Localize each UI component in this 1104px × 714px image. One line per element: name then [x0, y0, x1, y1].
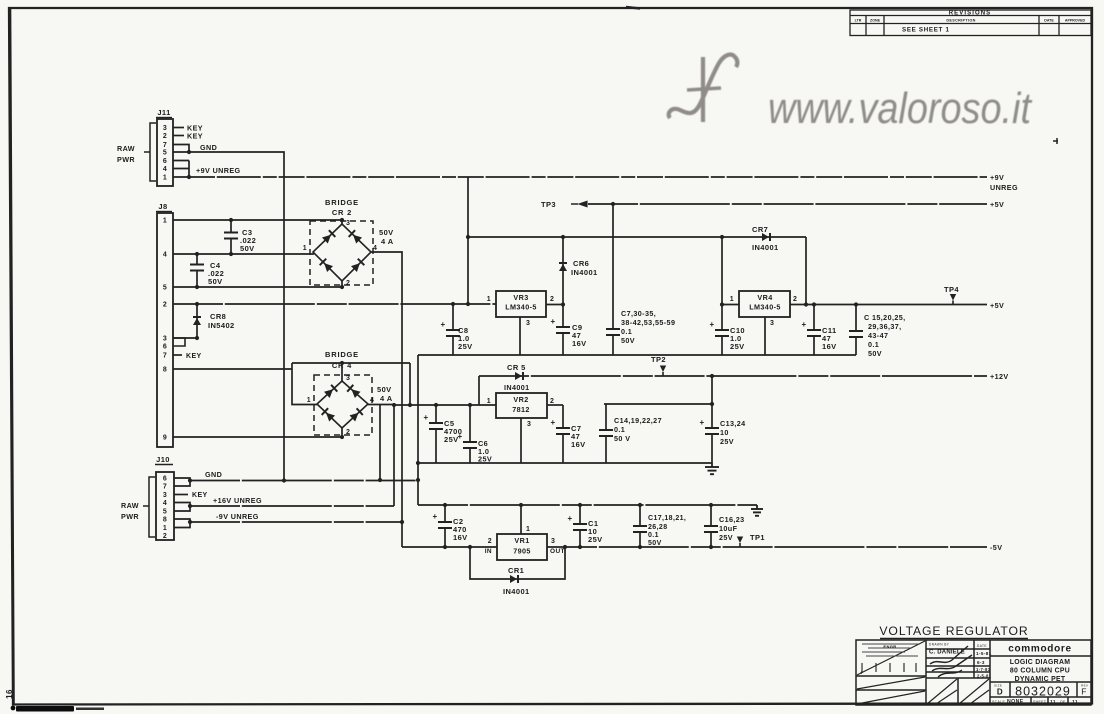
svg-text:F: F [1081, 687, 1087, 697]
svg-text:PWR: PWR [117, 155, 135, 164]
svg-text:11: 11 [1050, 699, 1056, 705]
svg-text:4: 4 [163, 252, 167, 259]
svg-text:2: 2 [346, 280, 350, 287]
wire +5V output rail [790, 304, 987, 306]
svg-text:IN4001: IN4001 [571, 268, 598, 277]
wire AC top run to CR4 [292, 362, 410, 364]
capacitor group C16,23 [710, 505, 712, 526]
bridge CR4 dashed outline [314, 375, 372, 435]
svg-text:DATE: DATE [1044, 19, 1054, 23]
bridge CR4 diamond [317, 381, 368, 428]
svg-text:GND: GND [200, 143, 217, 152]
bottom-left black mark [16, 706, 74, 712]
capacitor C5 [435, 405, 437, 423]
svg-text:5: 5 [163, 285, 167, 292]
svg-text:2: 2 [163, 133, 167, 140]
svg-text:9: 9 [163, 435, 167, 442]
capacitor C1 [579, 505, 581, 524]
svg-text:BRIDGE: BRIDGE [325, 198, 359, 207]
svg-text:6-3: 6-3 [977, 660, 985, 665]
svg-text:3: 3 [163, 336, 167, 343]
title block signature scribbles [930, 646, 972, 677]
VR2 pin 3 stub [520, 418, 522, 463]
svg-text:+: + [440, 320, 445, 329]
svg-text:4 A: 4 A [381, 237, 394, 246]
bridge CR4 node 2 stub [341, 428, 343, 437]
svg-text:8: 8 [163, 517, 167, 524]
svg-text:+: + [432, 512, 437, 521]
svg-text:2: 2 [550, 296, 554, 303]
svg-text:DRAWN BY: DRAWN BY [929, 643, 950, 647]
svg-text:TP4: TP4 [944, 285, 959, 294]
capacitor group C14,19,22,27 [605, 404, 607, 430]
svg-text:2: 2 [163, 533, 167, 540]
ground rail +12V section [418, 462, 712, 464]
bridge CR4 diode 1-3 [324, 389, 333, 398]
svg-text:VR2: VR2 [513, 395, 528, 404]
svg-text:1: 1 [303, 245, 307, 252]
svg-text:C7,30-35,: C7,30-35, [621, 309, 656, 318]
svg-text:commodore: commodore [1008, 644, 1072, 655]
diode CR1 IN4001 [470, 547, 565, 579]
J10 pin3 KEY stub [174, 494, 188, 496]
capacitor group C7,30-35,38-42,53,55-59 [612, 204, 614, 329]
svg-text:SEE SHEET 1: SEE SHEET 1 [902, 27, 950, 34]
wire J8 pin4 to bridge CR2 node 1 [173, 253, 314, 255]
svg-text:+9V: +9V [990, 173, 1004, 182]
svg-text:CR1: CR1 [508, 566, 524, 575]
svg-text:LTR: LTR [855, 19, 862, 23]
bridge CR2 diamond [313, 224, 371, 281]
bridge CR4 diode 4-3 [351, 389, 360, 398]
svg-text:4: 4 [860, 670, 863, 675]
svg-text:10: 10 [720, 428, 729, 437]
svg-text:+16V UNREG: +16V UNREG [213, 496, 262, 505]
svg-text:50V: 50V [377, 385, 392, 394]
svg-text:0.1: 0.1 [868, 340, 879, 349]
svg-text:7812: 7812 [512, 405, 530, 414]
svg-text:RAW: RAW [121, 501, 139, 510]
op-amp VR1 7905 regulator [497, 534, 547, 560]
svg-text:TP2: TP2 [651, 355, 666, 364]
svg-text:IN: IN [485, 548, 492, 555]
svg-text:8: 8 [163, 367, 167, 374]
bridge CR2 diode 2-4 [351, 263, 360, 272]
svg-text:+: + [699, 418, 704, 427]
svg-text:+9V UNREG: +9V UNREG [196, 166, 241, 175]
svg-text:16V: 16V [571, 440, 586, 449]
VR4 pin 3 stub [764, 317, 766, 355]
svg-text:2: 2 [793, 296, 797, 303]
wire CR7 to VR4 output [805, 237, 807, 305]
svg-text:25V: 25V [458, 342, 473, 351]
J10 +16V bracket pins 4,5 [174, 503, 190, 512]
svg-text:5: 5 [163, 509, 167, 516]
J10 -9V bracket pins 8,1 [174, 519, 190, 528]
svg-text:1-5-81: 1-5-81 [976, 651, 992, 656]
svg-text:7905: 7905 [513, 547, 531, 556]
svg-text:-5V: -5V [990, 543, 1002, 552]
op-amp VR2 7812 regulator [496, 393, 547, 418]
wire regulator input line [468, 236, 806, 238]
test point TP1 [739, 543, 741, 547]
J11 GND bracket pins 7,5 [173, 145, 189, 153]
wire J8 pin9 AC to bridge CR4 node 2 [173, 436, 342, 438]
svg-text:50 V: 50 V [614, 434, 630, 443]
wire +5V decoupling drop [611, 202, 615, 206]
svg-text:IN4001: IN4001 [504, 383, 530, 392]
svg-text:C14,19,22,27: C14,19,22,27 [614, 416, 662, 425]
svg-text:LM340-5: LM340-5 [749, 303, 781, 312]
svg-text:25V: 25V [730, 342, 745, 351]
svg-text:1-7-81: 1-7-81 [976, 667, 991, 672]
svg-text:+: + [550, 418, 555, 427]
svg-text:25V: 25V [588, 535, 603, 544]
wire +12V rail [479, 375, 987, 377]
wire VR2 input line [394, 404, 496, 406]
svg-text:1: 1 [730, 296, 734, 303]
svg-text:10uF: 10uF [719, 524, 738, 533]
diode CR6 IN4001 [562, 237, 564, 305]
top border tick mark [626, 7, 640, 9]
svg-text:+5V: +5V [990, 200, 1004, 209]
J8 pin7 KEY stub [173, 354, 182, 356]
svg-text:4 A: 4 A [380, 394, 393, 403]
wire -5V output rail [547, 546, 987, 548]
capacitor C2 [444, 505, 446, 522]
svg-text:16V: 16V [453, 533, 468, 542]
svg-text:3: 3 [770, 320, 774, 327]
capacitor C9 [562, 305, 564, 328]
svg-text:VR3: VR3 [513, 293, 528, 302]
svg-text:29,36,37,: 29,36,37, [868, 322, 902, 331]
svg-text:KEY: KEY [192, 492, 208, 499]
svg-text:VR4: VR4 [757, 293, 772, 302]
svg-text:1: 1 [163, 525, 167, 532]
revisions table [850, 10, 1091, 36]
svg-text:CR8: CR8 [210, 312, 226, 321]
svg-text:2-5-81: 2-5-81 [977, 674, 992, 679]
svg-text:80 COLUMN CPU: 80 COLUMN CPU [1010, 668, 1070, 675]
capacitor group C15,20,25,29,36,37,43-47 [855, 305, 857, 332]
svg-text:6: 6 [163, 476, 167, 483]
svg-text:50V: 50V [208, 277, 223, 286]
svg-text:SCALE: SCALE [992, 700, 1005, 704]
svg-text:TP3: TP3 [541, 200, 556, 209]
svg-text:50V: 50V [621, 336, 635, 345]
svg-text:4: 4 [373, 245, 377, 252]
bridge CR4 diode 2-1 [326, 413, 335, 422]
svg-text:5: 5 [163, 150, 167, 157]
svg-text:CR7: CR7 [752, 225, 768, 234]
capacitor C10 [721, 305, 723, 331]
svg-text:2: 2 [346, 429, 350, 436]
wire gnd branch vertical x380 [379, 405, 381, 480]
svg-text:0.1: 0.1 [614, 425, 625, 434]
VR1 pin 1 stub [520, 505, 522, 534]
svg-text:NONE: NONE [1007, 699, 1024, 705]
svg-text:16V: 16V [822, 342, 837, 351]
svg-text:KEY: KEY [187, 132, 203, 141]
svg-text:16: 16 [5, 689, 14, 699]
stray mark right [1053, 140, 1058, 142]
wire J8 pin1 to bridge CR2 node 3 [173, 219, 342, 221]
capacitor C3 [230, 220, 232, 233]
wire J8 pin5 to bridge CR2 node 2 [173, 286, 342, 288]
svg-text:www.valoroso.it: www.valoroso.it [768, 84, 1033, 133]
svg-text:UNREG: UNREG [990, 183, 1018, 192]
svg-text:C17,18,21,: C17,18,21, [648, 515, 686, 522]
op-amp VR3 LM340-5 regulator [496, 291, 546, 317]
test point TP2 [662, 372, 664, 376]
svg-text:APPROVED: APPROVED [1065, 19, 1086, 23]
svg-text:+: + [550, 317, 555, 326]
svg-text:LOGIC DIAGRAM: LOGIC DIAGRAM [1010, 659, 1071, 666]
capacitor C7 [562, 405, 564, 428]
ground symbol +12V section [711, 463, 713, 467]
wire jog x410 [409, 363, 411, 405]
wire +9V unreg drop to VR3 input [467, 177, 469, 304]
svg-text:-9V UNREG: -9V UNREG [216, 512, 259, 521]
svg-text:TP1: TP1 [750, 533, 765, 542]
svg-text:+: + [801, 320, 806, 329]
svg-text:+12V: +12V [990, 372, 1009, 381]
svg-text:3: 3 [526, 320, 530, 327]
svg-text:DESCRIPTION: DESCRIPTION [946, 19, 975, 23]
svg-text:IN4001: IN4001 [752, 243, 779, 252]
wire J8 pin3 [173, 337, 197, 339]
bridge CR2 node 3 stub [341, 220, 343, 224]
svg-text:GND: GND [205, 470, 222, 479]
op-amp VR4 LM340-5 regulator [739, 291, 790, 317]
bridge CR4 diode 2-4 [350, 413, 359, 422]
wire VR2 output [547, 404, 563, 406]
svg-text:PWR: PWR [121, 512, 139, 521]
svg-text:1: 1 [163, 175, 167, 182]
svg-text:2: 2 [163, 302, 167, 309]
svg-text:ENGR: ENGR [883, 644, 896, 649]
node gnd rail B left end [416, 461, 420, 465]
wire VR4 input drop [721, 237, 723, 305]
title block table [856, 640, 1091, 705]
capacitor group C13,24 [711, 376, 713, 404]
svg-text:1: 1 [487, 398, 491, 405]
svg-text:IN4001: IN4001 [503, 587, 530, 596]
svg-text:8032029: 8032029 [1015, 685, 1071, 699]
svg-text:1: 1 [487, 296, 491, 303]
svg-text:1: 1 [307, 397, 311, 404]
svg-text:OF: OF [1060, 700, 1066, 704]
svg-text:J10: J10 [156, 455, 170, 464]
svg-text:1: 1 [526, 526, 530, 533]
svg-text:3: 3 [163, 492, 167, 499]
wire +16V unreg vertical [393, 405, 395, 506]
test point TP4 [952, 301, 954, 305]
capacitor group C17,18,21,26,28 [639, 505, 641, 526]
svg-text:VR1: VR1 [514, 536, 529, 545]
wire bridge CR2 node4 to -9V unreg vertical [371, 252, 402, 547]
bridge CR2 diode 4-3 [353, 235, 362, 244]
svg-text:BRIDGE: BRIDGE [325, 350, 359, 359]
wire J8 pin8 AC [173, 368, 292, 370]
svg-text:7: 7 [163, 484, 167, 491]
svg-text:43-47: 43-47 [868, 331, 888, 340]
wire J8 pin2 +9V unreg to VR3 input [173, 303, 496, 305]
svg-text:KEY: KEY [186, 353, 202, 360]
svg-text:25V: 25V [444, 435, 459, 444]
svg-text:4: 4 [163, 500, 167, 507]
svg-text:7: 7 [163, 142, 167, 149]
svg-text:D: D [997, 688, 1003, 697]
svg-text:C13,24: C13,24 [720, 419, 746, 428]
svg-text:C16,23: C16,23 [719, 515, 745, 524]
svg-text:J8: J8 [158, 202, 167, 211]
svg-text:3: 3 [527, 421, 531, 428]
svg-text:6: 6 [163, 344, 167, 351]
svg-text:LM340-5: LM340-5 [505, 303, 537, 312]
J11 pin 2 KEY stub [173, 135, 184, 137]
svg-text:16V: 16V [572, 339, 587, 348]
J11 pin 3 KEY stub [173, 127, 184, 129]
ground rail -5V section [418, 504, 757, 506]
title block small print left cell [862, 644, 920, 656]
svg-text:50V: 50V [379, 228, 394, 237]
svg-text:3: 3 [346, 375, 350, 382]
svg-text:VOLTAGE REGULATOR: VOLTAGE REGULATOR [879, 624, 1028, 638]
svg-text:DYNAMIC PET: DYNAMIC PET [1015, 676, 1066, 683]
svg-text:0.1: 0.1 [648, 532, 659, 539]
svg-text:3: 3 [163, 125, 167, 132]
title block diagonal strike-outs [857, 641, 989, 704]
wire AC drop to CR4 node1 [292, 363, 317, 405]
bridge CR2 dashed outline [310, 221, 373, 285]
VR3 pin 3 stub [519, 317, 521, 355]
ground rail upper [418, 354, 856, 356]
svg-text:7: 7 [163, 353, 167, 360]
svg-text:J11: J11 [157, 108, 170, 117]
svg-text:3: 3 [346, 220, 350, 227]
svg-text:4: 4 [163, 166, 167, 173]
J8 pins 3,6 bracket [173, 338, 185, 346]
wire CR4 node4 +16V out [368, 404, 394, 406]
svg-text:2: 2 [550, 398, 554, 405]
ground symbol -5V section [756, 505, 758, 509]
svg-text:50V: 50V [868, 349, 882, 358]
svg-text:RAW: RAW [117, 144, 135, 153]
svg-text:25V: 25V [719, 533, 733, 542]
svg-text:+: + [709, 320, 714, 329]
svg-text:SHEET: SHEET [1033, 700, 1046, 704]
wire +12V sub line [604, 403, 712, 405]
svg-text:+5V: +5V [990, 301, 1004, 310]
svg-text:26,28: 26,28 [648, 524, 668, 531]
wire VR3 output [546, 304, 563, 306]
wire -9V unreg into VR1 [402, 546, 497, 548]
capacitor C11 [813, 305, 815, 331]
svg-text:ZONE: ZONE [870, 19, 881, 23]
svg-text:3: 3 [551, 538, 555, 545]
svg-text:25V: 25V [720, 437, 734, 446]
svg-text:REVISIONS: REVISIONS [949, 11, 992, 17]
svg-text:CR6: CR6 [573, 259, 589, 268]
J10 GND bracket pins 6,7 [174, 478, 190, 486]
capacitor C4 [196, 254, 198, 265]
capacitor C6 [469, 405, 471, 442]
svg-text:CR 5: CR 5 [507, 363, 526, 372]
bridge CR2 diode 2-1 [324, 263, 333, 272]
svg-text:0.1: 0.1 [621, 327, 632, 336]
svg-text:+: + [567, 514, 572, 523]
svg-text:11: 11 [1072, 699, 1078, 705]
svg-text:2: 2 [488, 538, 492, 545]
diode CR8 IN5402 [196, 304, 198, 338]
svg-text:CR 2: CR 2 [332, 208, 352, 217]
watermark logo [669, 55, 1033, 133]
svg-text:+: + [457, 432, 462, 441]
svg-text:38-42,53,55-59: 38-42,53,55-59 [621, 318, 675, 327]
svg-text:+: + [423, 413, 428, 422]
svg-text:OUT: OUT [550, 548, 565, 555]
bridge CR4 node 3 stub [341, 363, 343, 381]
svg-text:C 15,20,25,: C 15,20,25, [864, 313, 906, 322]
svg-text:DATE: DATE [977, 644, 987, 648]
VR4 pin 1 stub [722, 304, 739, 306]
svg-text:1: 1 [163, 218, 167, 225]
bridge CR2 diode 1-3 [322, 235, 331, 244]
capacitor C8 [452, 304, 454, 330]
svg-text:IN5402: IN5402 [208, 321, 235, 330]
svg-text:6: 6 [163, 158, 167, 165]
bridge CR2 node 2 stub [341, 281, 343, 287]
svg-text:4: 4 [370, 397, 374, 404]
wire ground interconnect x418 [417, 355, 419, 505]
svg-text:50V: 50V [240, 244, 255, 253]
svg-text:50V: 50V [648, 540, 662, 547]
J11 +9V UNREG bracket pins 6,4,1 [173, 161, 189, 178]
